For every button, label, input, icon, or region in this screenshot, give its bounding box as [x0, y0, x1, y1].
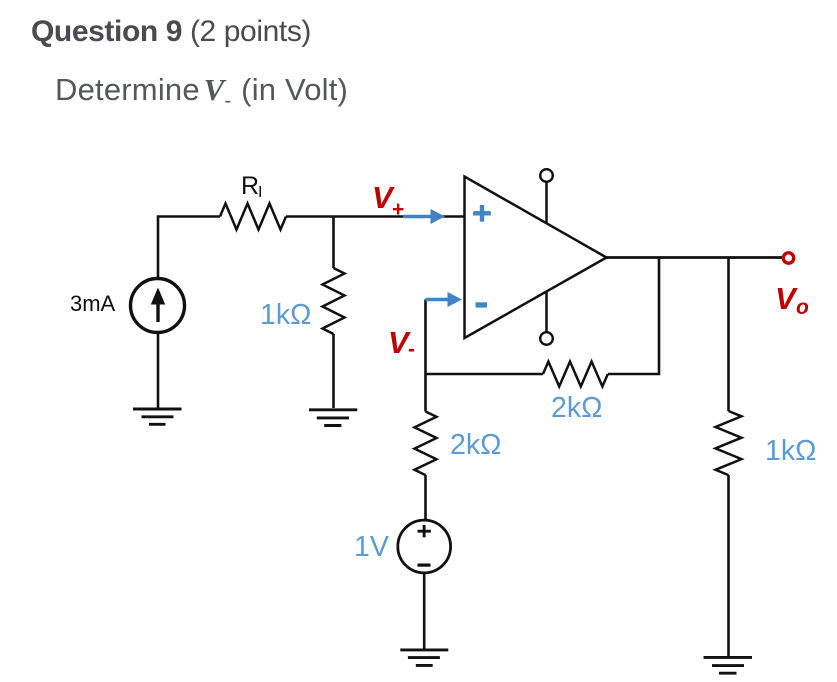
op-amp + input symbol [473, 205, 491, 222]
svg-text:1kΩ: 1kΩ [260, 299, 311, 331]
wire: 1k load to ground [727, 475, 730, 657]
label Vo (red) [775, 281, 809, 319]
svg-text:2kΩ: 2kΩ [551, 392, 602, 424]
voltage source 1V [398, 520, 451, 573]
resistor 2k (V- branch, vertical) [415, 412, 437, 476]
svg-text:+: + [392, 198, 404, 221]
label 2kOhm (feedback) [551, 392, 602, 424]
op-amp bottom power pin [540, 292, 553, 345]
wire: 1V source to ground [423, 573, 426, 650]
label 2kOhm (V- branch) [450, 429, 501, 461]
wire: feedback resistor left to node V- [426, 373, 544, 376]
ground (under 1V source) [400, 650, 448, 666]
wire: R_I right to node V+ junction and on to op-amp + input [286, 215, 464, 218]
resistor 2k feedback (horizontal zigzag) [543, 362, 608, 387]
svg-text:2kΩ: 2kΩ [450, 429, 501, 461]
wire: current source top to R_I left [158, 217, 220, 278]
node V+ arrow (blue) [403, 209, 445, 224]
op-amp top power pin [540, 169, 553, 222]
wire: current source bottom to ground [157, 332, 160, 409]
svg-text:1V: 1V [354, 531, 389, 563]
terminal Vo (red circle) [783, 253, 793, 263]
ground (under current source) [133, 409, 182, 424]
wire: op-amp output to Vo terminal [607, 256, 783, 259]
wire: load branch from output node down to 1k [727, 258, 730, 412]
label 1kOhm (left) [260, 299, 311, 331]
node V- arrow (blue) [426, 292, 463, 307]
label 1kOhm (load) [765, 435, 816, 467]
label 1V [354, 531, 389, 563]
ground (under left 1k) [309, 410, 357, 426]
svg-text:o: o [796, 296, 809, 319]
heading Question 9 (2 points) [31, 15, 311, 49]
wire: feedback branch from output node down [608, 258, 659, 375]
label 3mA [70, 291, 116, 316]
op-amp U1 triangle [465, 177, 607, 339]
svg-text:V: V [775, 281, 798, 316]
wire: 1k resistor bottom to ground [332, 334, 335, 408]
svg-text:1kΩ: 1kΩ [765, 435, 816, 467]
svg-text:R: R [241, 172, 259, 200]
svg-text:I: I [258, 184, 262, 201]
ground (under load 1k) [704, 657, 753, 673]
wire: node V+ junction down to 1k resistor [332, 217, 335, 269]
svg-text:-: - [408, 338, 415, 361]
wire: 2k resistor to 1V source [424, 475, 427, 521]
prompt Determine V- (in Volt) [55, 72, 348, 113]
op-amp - input symbol [476, 302, 488, 307]
current source I1 (3mA) [131, 279, 185, 333]
resistor RI (horizontal zigzag) [220, 204, 286, 230]
resistor 1k (left, vertical) [323, 268, 345, 334]
resistor 1k (load, vertical) [716, 411, 742, 475]
label V- (red) [388, 325, 415, 361]
svg-text:3mA: 3mA [70, 291, 116, 316]
label V+ (red) [372, 180, 404, 221]
wire: node V- vertical up to op-amp minus input level [424, 300, 427, 412]
label RI [241, 172, 262, 201]
